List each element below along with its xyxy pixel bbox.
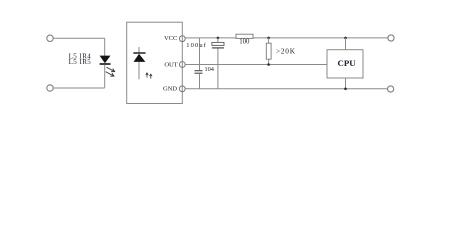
wire: capacitor C1 branch upper [217, 38, 219, 43]
junction dot pull-up bottom [267, 63, 270, 66]
svg-text:>20K: >20K [276, 47, 296, 56]
wire: capacitor C1 branch lower [217, 49, 219, 89]
LED D1 cathode bar [100, 63, 111, 65]
terminal P1 (left top) [47, 35, 53, 41]
LED D1 triangle [100, 56, 111, 64]
svg-text:GND: GND [163, 86, 177, 93]
svg-text:CPU: CPU [338, 58, 357, 68]
capacitor C1 top plate (polarized box) [212, 42, 224, 45]
junction dot on VCC rail at C1 [217, 37, 220, 40]
wire: CPU stub bottom [345, 78, 347, 89]
svg-text:VCC: VCC [164, 35, 178, 42]
wire: LED anode vertical [104, 38, 106, 56]
LED emission arrow 1 [107, 67, 115, 71]
pin GND circle [179, 86, 185, 92]
LED emission arrow 2 [106, 72, 114, 76]
svg-text:100uf: 100uf [186, 42, 206, 49]
wire: pull-up stub top [268, 38, 270, 43]
terminal P2 (left bottom) [47, 85, 53, 91]
wire: bottom-left from terminal to LED branch [53, 87, 104, 89]
wire: VCC rail [185, 37, 388, 39]
wire: capacitor C2 branch lower [199, 74, 201, 89]
svg-text:OUT: OUT [164, 62, 177, 69]
terminal P3 (right top) [388, 35, 394, 41]
CPU box U2 [327, 50, 363, 78]
photodiode D2 lead (top) [138, 47, 140, 52]
photodiode incoming arrow 1 [146, 73, 148, 77]
photodiode D2 cathode bar [133, 52, 145, 54]
terminal P4 (right bottom) [388, 86, 394, 92]
capacitor C1 bottom plate [212, 47, 224, 49]
photodiode D2 lead (bottom) [138, 62, 140, 79]
IR receiver module box U1 [127, 22, 183, 103]
photodiode incoming arrow 2 [150, 74, 152, 78]
resistor R2 body [266, 43, 271, 59]
svg-text:L5 IR5: L5 IR5 [69, 58, 92, 66]
wire: top-left from terminal to LED branch [53, 37, 104, 39]
wire: OUT net [185, 64, 327, 66]
wire: capacitor C2 branch upper [199, 38, 201, 70]
junction dot CPU bottom [344, 88, 347, 91]
svg-text:104: 104 [205, 66, 215, 73]
pin VCC circle [179, 36, 185, 42]
wire: GND rail [185, 88, 387, 90]
capacitor C2 plates [195, 70, 203, 72]
wire: pull-up stub bottom [268, 59, 270, 64]
junction dot CPU top [344, 37, 347, 40]
junction dot pull-up top [267, 37, 270, 40]
wire: CPU stub top [345, 38, 347, 50]
svg-text:100: 100 [239, 38, 250, 45]
pin OUT circle [179, 62, 185, 68]
photodiode D2 triangle [134, 54, 146, 62]
resistor R1 body [236, 34, 253, 38]
wire: LED cathode vertical [104, 65, 106, 88]
